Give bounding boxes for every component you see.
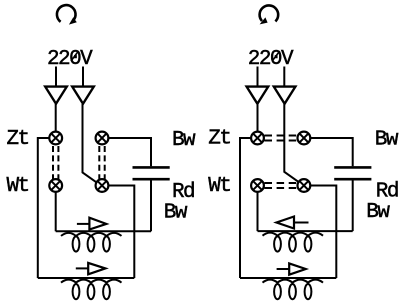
capacitor C (left diagram) xyxy=(133,167,170,179)
plug pin triangle 2 (right) xyxy=(274,87,296,104)
contact ZtR xyxy=(96,132,109,145)
linkage dashes left pair xyxy=(53,146,58,179)
wire stub to pin 2 (right) xyxy=(283,67,285,87)
direction arrow right (start winding, right diagram) xyxy=(277,263,306,274)
slashed zero mark (right 220V) xyxy=(272,51,280,61)
start winding line (right diagram) xyxy=(240,277,336,279)
wire ZtR to capacitor top xyxy=(109,138,151,166)
contact ZtR (right) xyxy=(298,132,311,145)
contact WtR xyxy=(96,179,109,192)
wire stub to pin 1 xyxy=(55,67,57,87)
wire pin2 diagonal to contact WtR (right) xyxy=(284,104,298,182)
wire WtL down to main winding xyxy=(55,192,57,231)
svg-text:Zt: Zt xyxy=(7,128,29,151)
wire pin1 to contact ZtL (right) xyxy=(257,104,259,131)
direction arrow right (main winding, left diagram) xyxy=(77,218,106,230)
wire stub to pin 2 xyxy=(82,67,84,87)
start winding line (left diagram) xyxy=(38,277,135,279)
svg-text:Zt: Zt xyxy=(208,127,230,150)
svg-text:Wt: Wt xyxy=(208,175,230,198)
svg-text:Bw: Bw xyxy=(164,202,188,225)
wire Zt corner down left side (right) xyxy=(240,138,251,278)
main winding line (right diagram) xyxy=(258,230,353,232)
wire WtR right and down (right) xyxy=(311,186,337,279)
contact WtL xyxy=(49,179,62,192)
wire WtL down to main winding (right) xyxy=(257,192,259,231)
direction arrow right (start winding, left diagram) xyxy=(76,263,106,274)
contact ZtL (right) xyxy=(251,132,264,145)
linkage dashes Zt row (right diagram) xyxy=(265,136,298,141)
svg-text:Rd: Rd xyxy=(172,181,194,204)
main winding line (left diagram) xyxy=(56,230,151,232)
rotation arrow CW xyxy=(57,5,77,25)
wire ZtR to capacitor top (right) xyxy=(311,138,353,166)
svg-text:Bw: Bw xyxy=(172,129,196,152)
capacitor C (right diagram) xyxy=(334,167,371,179)
plug pin triangle 2 xyxy=(72,87,94,104)
direction arrow left (main winding, right diagram) xyxy=(277,217,309,229)
main winding loops xyxy=(61,233,122,252)
wire pin2 diagonal to contact WtR xyxy=(83,104,97,182)
wire capacitor bottom lead xyxy=(150,181,152,232)
contact ZtL xyxy=(49,132,62,145)
contact WtR (right) xyxy=(298,179,311,192)
slashed zero mark (left 220V) xyxy=(71,51,79,61)
svg-text:220V: 220V xyxy=(47,48,93,71)
plug pin triangle 1 xyxy=(45,87,67,104)
plug pin triangle 1 (right) xyxy=(247,87,269,104)
contact WtL (right) xyxy=(251,179,264,192)
linkage dashes right pair xyxy=(99,146,104,179)
start winding loops xyxy=(61,280,122,300)
svg-text:Wt: Wt xyxy=(7,175,29,198)
svg-text:220V: 220V xyxy=(248,48,294,71)
wire Zt corner down left side xyxy=(38,138,49,278)
start winding loops (right) xyxy=(263,280,324,300)
svg-text:Bw: Bw xyxy=(366,201,390,224)
main winding loops (right) xyxy=(263,233,324,252)
rotation arrow CCW xyxy=(260,5,279,24)
wire WtR right and down xyxy=(109,186,135,279)
wire pin1 to contact ZtL xyxy=(55,104,57,131)
wire stub to pin 1 (right) xyxy=(257,67,259,87)
wire capacitor bottom lead (right) xyxy=(352,181,354,232)
linkage dashes Wt row (right diagram) xyxy=(265,183,298,188)
svg-text:Bw: Bw xyxy=(375,128,399,151)
